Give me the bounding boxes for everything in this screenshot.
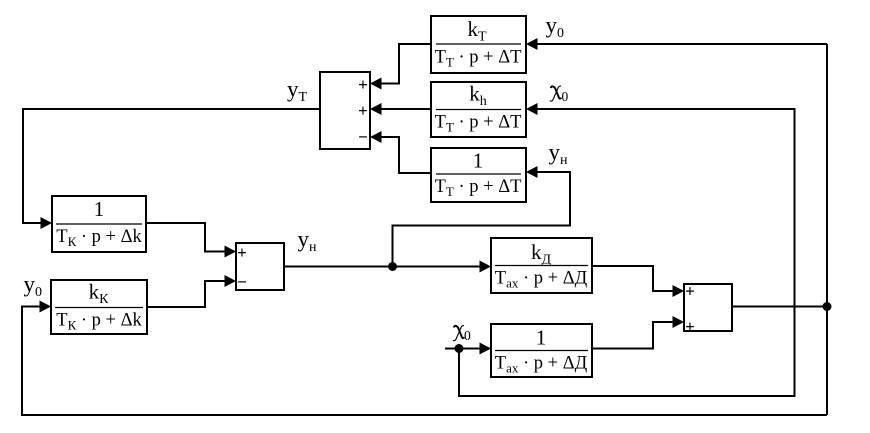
svg-text:0: 0: [464, 328, 471, 343]
svg-text:+: +: [358, 101, 368, 120]
svg-text:+: +: [358, 75, 368, 94]
svg-text:1: 1: [94, 197, 105, 221]
svg-text:+: +: [237, 243, 247, 262]
svg-text:+: +: [685, 317, 695, 336]
svg-text:−: −: [358, 128, 368, 147]
svg-text:1: 1: [536, 326, 547, 350]
svg-text:−: −: [237, 272, 247, 291]
svg-text:1: 1: [473, 149, 484, 173]
svg-text:+: +: [685, 281, 695, 300]
svg-text:0: 0: [562, 89, 569, 104]
